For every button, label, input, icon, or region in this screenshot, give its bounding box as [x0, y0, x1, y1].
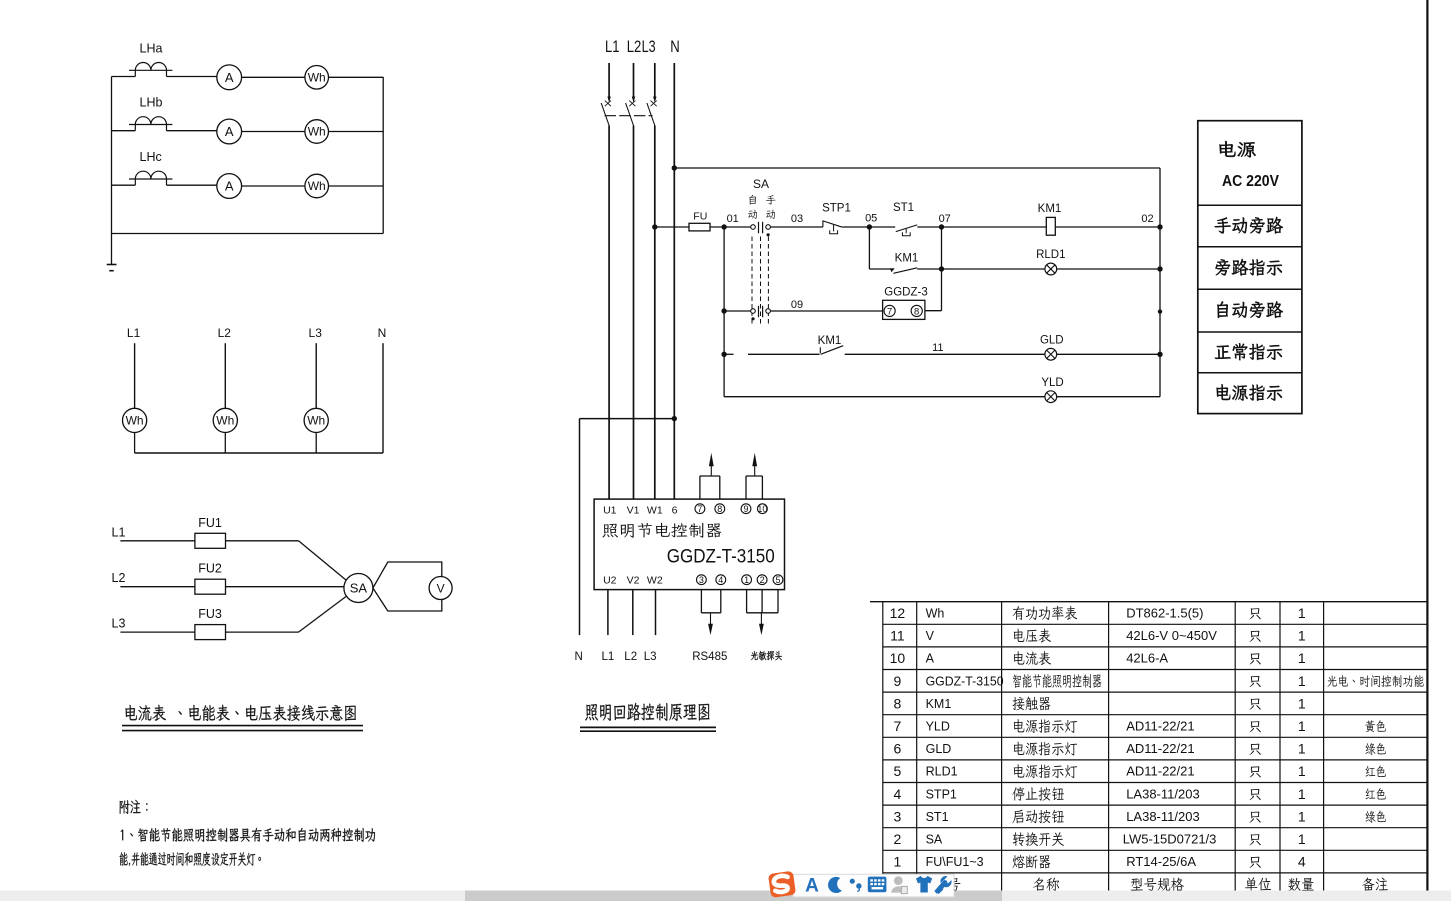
svg-text:1: 1 — [1298, 695, 1306, 711]
table column line — [1279, 602, 1281, 896]
svg-text:RT14-25/6A: RT14-25/6A — [1126, 854, 1196, 869]
svg-text:LW5-15D0721/3: LW5-15D0721/3 — [1123, 832, 1217, 847]
wire L1 feeder upper — [608, 63, 610, 97]
fuse FU3 — [195, 625, 226, 640]
svg-text:SA: SA — [350, 581, 368, 596]
table top border — [870, 601, 1427, 603]
wire node 11 segment — [845, 353, 1045, 355]
wire right bus of CT metering circuit — [382, 77, 384, 234]
table column line — [1234, 602, 1236, 896]
svg-text:L1: L1 — [602, 651, 615, 663]
wire — [1055, 226, 1160, 228]
wire main control row segment — [655, 226, 689, 228]
svg-text:4: 4 — [1298, 854, 1306, 870]
table row 5 name — [1014, 764, 1077, 778]
selector SA position label 动(2) — [766, 210, 775, 219]
table row 12 unit — [1249, 608, 1260, 619]
table header 数量 — [1288, 878, 1313, 891]
watt-hour meter Wh on L1 — [123, 408, 147, 432]
svg-text:05: 05 — [865, 213, 877, 225]
wire — [242, 76, 305, 78]
breaker QF pole cross — [605, 101, 611, 107]
junction on N at control supply rail — [672, 165, 677, 170]
breaker QF pole cross — [651, 101, 657, 107]
svg-text:RLD1: RLD1 — [1036, 249, 1065, 261]
table row 3 unit — [1249, 812, 1260, 823]
wire V2 stub — [632, 590, 634, 636]
wire — [134, 433, 136, 454]
breaker QF pole cross — [629, 101, 635, 107]
svg-text:10: 10 — [890, 650, 906, 666]
breaker QF pole contact — [647, 103, 655, 126]
wire control right rail — [1159, 168, 1161, 397]
svg-text:V2: V2 — [627, 575, 640, 587]
table header 型号规格 — [1131, 878, 1184, 892]
legend 旁路指示 — [1215, 259, 1281, 276]
svg-text:7: 7 — [894, 718, 902, 734]
wire — [167, 76, 217, 78]
svg-text:STP1: STP1 — [822, 203, 851, 215]
wire — [869, 226, 895, 228]
wire — [329, 76, 384, 78]
contactor auxiliary contact KM1 (NO, GLD row) — [820, 346, 843, 355]
legend panel box — [1198, 121, 1302, 414]
svg-text:12: 12 — [890, 605, 906, 621]
toolbar icon moon — [828, 877, 842, 893]
watt-hour meter Wh (LHb phase) — [305, 120, 329, 144]
wire node 07 branch down — [941, 227, 943, 311]
drawing frame border — [1426, 0, 1428, 891]
table header 代号 — [934, 878, 960, 892]
table row line — [883, 849, 1428, 851]
toolbar icon shirt (skin) — [916, 876, 932, 893]
legend panel divider — [1198, 246, 1302, 248]
svg-text:W2: W2 — [647, 575, 663, 587]
terminal 10 — [757, 504, 767, 514]
svg-text:5: 5 — [775, 575, 780, 585]
table column line — [916, 602, 918, 896]
wire L2 drop — [224, 343, 226, 408]
wire — [120, 586, 194, 588]
svg-text:1: 1 — [744, 575, 749, 585]
svg-text:GGDZ-3: GGDZ-3 — [884, 287, 927, 299]
svg-text:2: 2 — [760, 575, 765, 585]
svg-text:Wh: Wh — [308, 71, 326, 85]
svg-text:8: 8 — [894, 695, 902, 711]
wire — [167, 184, 217, 186]
port 光敏探头 label — [751, 651, 782, 661]
legend panel divider — [1198, 204, 1302, 206]
svg-text:W1: W1 — [647, 505, 663, 517]
svg-text:4: 4 — [894, 786, 902, 802]
legend panel divider — [1198, 288, 1302, 290]
junction node 07 — [939, 224, 944, 229]
svg-text:42L6-A: 42L6-A — [1126, 651, 1168, 666]
legend 电源 — [1219, 141, 1255, 157]
legend 正常指示 — [1215, 343, 1282, 360]
svg-text:STP1: STP1 — [926, 787, 957, 801]
svg-text:1: 1 — [1298, 741, 1306, 757]
table row line — [883, 827, 1428, 829]
svg-text:A: A — [225, 124, 234, 139]
svg-text:11: 11 — [890, 628, 905, 644]
svg-text:1: 1 — [1298, 650, 1306, 666]
svg-text:Wh: Wh — [308, 125, 326, 139]
svg-text:A: A — [225, 70, 234, 85]
svg-text:Wh: Wh — [307, 414, 325, 428]
current transformer LHb — [129, 117, 172, 131]
table row 1 name — [1012, 855, 1050, 869]
output connector 7-8 — [700, 476, 720, 499]
wire — [724, 310, 751, 312]
table row 10 name — [1014, 651, 1051, 665]
table header 名称 — [1033, 877, 1059, 891]
ammeter A (LHb phase) — [217, 119, 242, 144]
wire left bus of CT metering circuit — [111, 77, 113, 265]
wire N feeder — [673, 63, 675, 499]
svg-text:GLD: GLD — [926, 742, 952, 756]
wire — [224, 433, 226, 454]
svg-text:YLD: YLD — [1041, 377, 1063, 389]
svg-text:1: 1 — [1298, 763, 1306, 779]
table row 2 unit — [1249, 834, 1260, 845]
svg-text:L2: L2 — [627, 38, 642, 56]
svg-text:L2: L2 — [112, 571, 126, 585]
wire voltmeter loop — [373, 562, 442, 611]
photocontrol module GGDZ-3 — [883, 300, 925, 319]
wire L1 feeder lower — [608, 126, 610, 500]
svg-text:GGDZ-T-3150: GGDZ-T-3150 — [926, 674, 1004, 688]
wire L2 feeder lower — [633, 126, 635, 500]
ground symbol — [107, 265, 117, 271]
svg-text:8: 8 — [914, 306, 919, 317]
contactor coil KM1 — [1046, 217, 1055, 235]
sogou logo S — [768, 871, 796, 898]
output connector 9-10 — [746, 476, 762, 499]
table row 3 name — [1012, 810, 1064, 824]
svg-text:Wh: Wh — [216, 414, 234, 428]
svg-text:L1: L1 — [127, 326, 141, 340]
table row 8 name — [1012, 697, 1050, 711]
wire N drop to label — [579, 419, 581, 635]
wire stub — [724, 353, 733, 355]
fuse FU2 — [195, 579, 226, 594]
wire bottom bus of CT metering circuit — [112, 233, 384, 235]
table row line — [883, 623, 1428, 625]
svg-text:KM1: KM1 — [895, 253, 919, 265]
svg-text:2: 2 — [894, 831, 902, 847]
svg-text:07: 07 — [939, 213, 951, 225]
table row 8 unit — [1249, 699, 1260, 710]
wire — [925, 310, 942, 312]
junction — [721, 352, 726, 357]
scrollbar track — [0, 891, 1451, 901]
wire — [112, 76, 136, 78]
table row 6 unit — [1249, 744, 1260, 755]
selector switch SA — [344, 574, 373, 603]
terminal 9 — [741, 504, 751, 514]
table column line — [1323, 602, 1325, 896]
wire — [112, 130, 136, 132]
controller name 照明节电控制器 — [603, 523, 722, 538]
svg-text:ST1: ST1 — [926, 810, 949, 824]
wire — [917, 226, 941, 228]
table row 11 unit — [1249, 631, 1260, 642]
wire L1 drop — [134, 343, 136, 408]
ammeter A (LHc phase) — [217, 174, 242, 199]
svg-text:1: 1 — [1298, 831, 1306, 847]
svg-text:SA: SA — [926, 833, 943, 847]
svg-text:5: 5 — [894, 763, 902, 779]
legend panel divider — [1198, 331, 1302, 333]
wire control top rail — [674, 167, 1160, 169]
svg-text:Wh: Wh — [126, 414, 144, 428]
wire — [329, 131, 384, 133]
stop button STP1 contact — [823, 220, 842, 233]
svg-text:FU2: FU2 — [198, 562, 222, 576]
svg-text:LA38-11/203: LA38-11/203 — [1126, 809, 1200, 824]
svg-text:1: 1 — [1298, 786, 1306, 802]
wire — [1057, 353, 1160, 355]
wire — [242, 131, 305, 133]
svg-text:1: 1 — [1298, 673, 1306, 689]
sogou toolbar panel — [793, 874, 954, 897]
svg-text:03: 03 — [791, 213, 803, 225]
wire L3 feeder upper — [654, 63, 656, 97]
wire node 03 segment — [770, 226, 823, 228]
table row line — [883, 646, 1428, 648]
svg-text:3: 3 — [699, 575, 704, 585]
table header 单位 — [1245, 877, 1271, 891]
caption underline 2 — [580, 730, 716, 732]
current transformer LHa — [129, 63, 172, 77]
svg-text:AD11-22/21: AD11-22/21 — [1126, 741, 1194, 756]
svg-text:10: 10 — [757, 504, 767, 514]
svg-text:L1: L1 — [112, 525, 126, 539]
arrow up — [752, 453, 757, 476]
svg-text:L1: L1 — [605, 38, 620, 56]
svg-text:L3: L3 — [309, 326, 323, 340]
wire — [226, 631, 299, 633]
svg-text:V: V — [926, 629, 935, 643]
table row 5 unit — [1249, 766, 1260, 777]
svg-text:N: N — [670, 38, 680, 56]
svg-text:LA38-11/203: LA38-11/203 — [1126, 786, 1200, 801]
svg-text:GLD: GLD — [1040, 335, 1064, 347]
table column line — [1001, 602, 1003, 896]
svg-text:FU\FU1~3: FU\FU1~3 — [926, 855, 984, 869]
table row 7 note — [1365, 720, 1386, 732]
junction — [1157, 266, 1162, 271]
svg-text:02: 02 — [1141, 213, 1153, 225]
wire — [842, 226, 869, 228]
table row 9 note — [1327, 675, 1423, 687]
table row 5 note — [1366, 765, 1386, 777]
wire control left rail — [723, 227, 725, 397]
table header 备注 — [1362, 877, 1388, 891]
svg-text:FU1: FU1 — [198, 516, 222, 530]
indicator lamp YLD — [1045, 391, 1057, 403]
wire — [1057, 396, 1160, 398]
wire — [710, 226, 751, 228]
junction node 01 — [721, 224, 726, 229]
wire — [315, 433, 317, 454]
watt-hour meter Wh (LHc phase) — [305, 174, 329, 198]
svg-text:3: 3 — [894, 808, 902, 824]
table column line — [1108, 602, 1110, 896]
wire node 09 segment — [770, 310, 882, 312]
svg-text:RLD1: RLD1 — [926, 765, 958, 779]
svg-text:YLD: YLD — [926, 720, 950, 734]
selector SA auto-position contact — [751, 306, 771, 321]
svg-text:FU3: FU3 — [198, 607, 222, 621]
wire bottom bus — [135, 452, 383, 454]
wire — [226, 540, 299, 542]
table row line — [883, 782, 1428, 784]
wire — [748, 353, 820, 355]
controller box GGDZ-T-3150 — [594, 499, 784, 589]
table row 4 name — [1012, 787, 1064, 801]
watt-hour meter Wh on L3 — [304, 408, 328, 432]
legend 手动旁路 — [1215, 217, 1283, 234]
start button ST1 contact — [896, 225, 917, 236]
junction N tap to controller — [672, 416, 677, 421]
arrowhead — [653, 97, 656, 103]
table row 1 unit — [1249, 857, 1260, 868]
table row line — [883, 736, 1428, 738]
table row 7 unit — [1249, 721, 1260, 732]
svg-text:11: 11 — [932, 342, 943, 354]
ammeter A (LHa phase) — [217, 65, 242, 90]
wire — [120, 540, 194, 542]
table row 10 unit — [1249, 653, 1260, 664]
svg-text:FU: FU — [693, 211, 707, 223]
table column line — [882, 602, 884, 896]
table row 11 name — [1014, 629, 1051, 643]
terminal 2 — [757, 575, 767, 585]
svg-text:N: N — [378, 326, 387, 340]
terminal 7 — [695, 504, 705, 514]
svg-text:6: 6 — [894, 741, 902, 757]
terminal 5 — [773, 575, 783, 585]
wire — [167, 130, 217, 132]
svg-text:7: 7 — [697, 504, 702, 514]
table row 4 unit — [1249, 789, 1260, 800]
svg-text:N: N — [574, 651, 582, 663]
note line 2 — [120, 852, 261, 866]
selector SA position label 手 — [766, 195, 776, 204]
svg-text:V1: V1 — [627, 505, 640, 517]
table row line — [883, 804, 1428, 806]
svg-text:1: 1 — [894, 854, 902, 870]
table row 4 note — [1366, 788, 1386, 800]
legend 自动旁路 — [1217, 301, 1283, 318]
svg-text:ST1: ST1 — [893, 202, 914, 214]
svg-text:AD11-22/21: AD11-22/21 — [1126, 719, 1194, 734]
breaker QF pole contact — [626, 103, 634, 126]
toolbar icon user (gray) — [891, 876, 907, 894]
arrow down — [759, 613, 764, 635]
arrowhead — [607, 97, 610, 103]
current transformer LHc — [129, 171, 172, 185]
svg-text:RS485: RS485 — [692, 651, 727, 663]
caption 照明回路控制原理图 — [585, 703, 709, 721]
caption underline 2 — [122, 730, 363, 732]
svg-text:4: 4 — [718, 575, 723, 585]
svg-text:L3: L3 — [112, 617, 126, 631]
svg-text:1: 1 — [1298, 605, 1306, 621]
svg-text:1: 1 — [1298, 628, 1306, 644]
legend 电源指示 — [1216, 384, 1282, 401]
arrow up — [709, 453, 714, 476]
fuse FU — [689, 223, 710, 231]
fuse FU1 — [195, 533, 226, 548]
caption underline — [580, 726, 716, 728]
selector SA link (dashed) — [752, 237, 768, 326]
svg-text:KM1: KM1 — [926, 697, 952, 711]
table row 6 name — [1014, 742, 1077, 756]
wire diagonal L1 to SA — [299, 541, 353, 585]
table row 9 unit — [1249, 676, 1260, 687]
toolbar icon wrench handle — [936, 886, 943, 894]
terminal 8 — [715, 504, 725, 514]
terminal 4 — [716, 575, 726, 585]
scrollbar thumb — [465, 891, 1002, 901]
table row 12 name — [1013, 606, 1078, 620]
svg-text:A: A — [926, 652, 935, 666]
svg-text:U2: U2 — [603, 575, 617, 587]
wire — [329, 185, 384, 187]
table row 7 name — [1014, 719, 1077, 733]
selector SA position label 自 — [749, 195, 756, 205]
indicator lamp GLD — [1045, 348, 1057, 360]
junction on L3 feeding control — [652, 224, 657, 229]
toolbar icon punctuation — [850, 879, 862, 892]
svg-text:Wh: Wh — [926, 607, 945, 621]
RS485 connector — [701, 590, 720, 613]
wire N drop — [382, 343, 384, 453]
table row line — [883, 691, 1428, 693]
svg-text:09: 09 — [791, 299, 803, 311]
wire U2 stub — [607, 590, 609, 636]
breaker QF pole contact — [601, 103, 609, 126]
wire — [1057, 268, 1160, 270]
watt-hour meter Wh (LHa phase) — [305, 66, 329, 90]
table row line — [883, 872, 1428, 874]
svg-text:GGDZ-T-3150: GGDZ-T-3150 — [667, 547, 775, 568]
table row line — [883, 759, 1428, 761]
selector SA position label 动 — [748, 210, 757, 219]
indicator lamp RLD1 — [1045, 263, 1057, 275]
terminal 1 — [742, 575, 752, 585]
svg-text:7: 7 — [887, 306, 892, 317]
wire node 05 branch down — [868, 227, 870, 269]
photocell connector — [747, 590, 778, 613]
svg-text:V: V — [437, 581, 445, 595]
table row 3 note — [1365, 811, 1385, 823]
wire L3 feeder lower — [654, 126, 656, 500]
svg-text:L3: L3 — [642, 38, 656, 56]
junction — [939, 266, 944, 271]
svg-text:1: 1 — [1298, 718, 1306, 734]
selector SA auto contact — [751, 222, 771, 237]
caption 电流表、电能表、电压表接线示意图 — [125, 705, 356, 721]
wire — [226, 586, 345, 588]
svg-text:01: 01 — [727, 213, 739, 225]
svg-text:AC 220V: AC 220V — [1222, 173, 1280, 190]
svg-text:L2: L2 — [624, 651, 637, 663]
wire N tap horizontal — [580, 418, 675, 420]
